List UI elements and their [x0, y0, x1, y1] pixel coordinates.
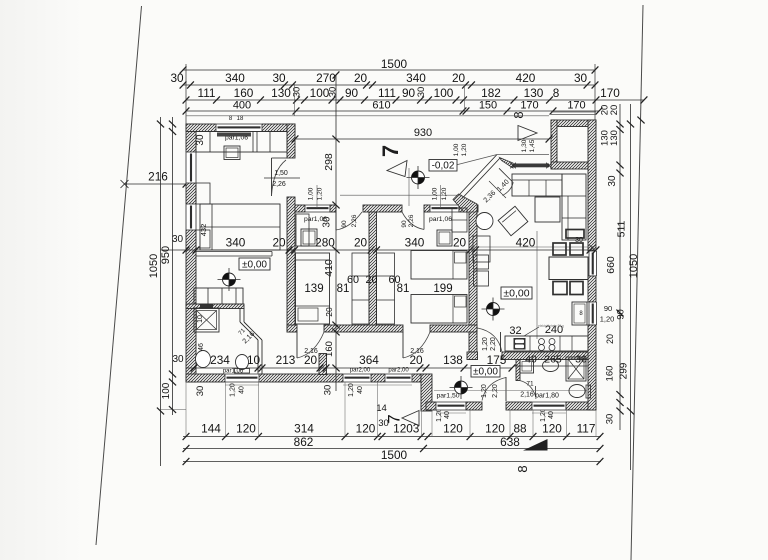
svg-text:298: 298 [323, 153, 335, 171]
washing machine porch [520, 360, 534, 374]
roof edge right wing [551, 112, 596, 115]
svg-text:120: 120 [443, 422, 463, 436]
svg-text:139: 139 [304, 283, 323, 295]
wall bedroom1 south partition [196, 252, 272, 257]
window left wall lower [185, 204, 196, 230]
svg-text:638: 638 [500, 435, 520, 449]
toilet bath2 [569, 385, 591, 399]
window top bedroom1 [216, 123, 262, 132]
svg-text:160: 160 [605, 366, 616, 382]
svg-text:160: 160 [234, 86, 254, 100]
wall storage west [551, 120, 557, 169]
svg-text:20: 20 [453, 236, 467, 250]
svg-text:2,26: 2,26 [272, 181, 286, 188]
svg-text:950: 950 [160, 246, 172, 264]
svg-text:±0,00: ±0,00 [473, 366, 498, 377]
svg-text:1,00: 1,00 [453, 143, 460, 156]
svg-text:2,20: 2,20 [492, 384, 499, 398]
svg-text:1,20: 1,20 [317, 187, 324, 200]
bottom left small dims 30 120 40 [195, 383, 555, 429]
porch floor line [434, 390, 587, 392]
svg-text:120: 120 [485, 422, 505, 436]
svg-text:511: 511 [616, 220, 628, 237]
svg-text:610: 610 [372, 100, 390, 112]
svg-text:14: 14 [376, 403, 387, 414]
svg-text:170: 170 [567, 100, 585, 112]
level label -0,02 terrace [429, 160, 457, 172]
labels 81 81 [337, 283, 410, 295]
svg-text:8: 8 [511, 111, 526, 118]
window bathroom1 south [225, 373, 259, 382]
left dimension line 1050 [148, 117, 164, 466]
svg-text:7: 7 [378, 145, 403, 157]
svg-text:20: 20 [600, 105, 611, 116]
bed bedroom3 lower [411, 295, 467, 324]
kitchen labels [509, 324, 564, 337]
terrace door dim lines [317, 185, 462, 208]
door bedroom2 corridor [297, 332, 324, 358]
svg-text:170: 170 [600, 86, 620, 100]
eaves line top [186, 115, 549, 117]
window corridor south 1 [343, 373, 371, 382]
wall bedrooms north seg4 [459, 205, 478, 212]
svg-text:216: 216 [148, 170, 168, 184]
terrace diagonal window [459, 155, 513, 205]
property boundary line right [631, 5, 643, 560]
benchmark hall [218, 268, 241, 291]
kitchen zone line [536, 231, 538, 339]
entrance arrow [518, 126, 537, 153]
window right wall upper [588, 251, 597, 276]
svg-text:30: 30 [323, 385, 334, 396]
svg-text:20: 20 [452, 71, 466, 85]
window bath2 south [532, 401, 566, 410]
svg-text:340: 340 [406, 71, 426, 85]
wardrobe bedroom1 [196, 132, 287, 153]
window label par1,06 bedroom1 [225, 135, 248, 142]
svg-text:120: 120 [356, 422, 376, 436]
window porch south [436, 401, 466, 410]
svg-text:30: 30 [575, 237, 583, 244]
wall bedrooms north seg3 [363, 205, 402, 212]
window left wall upper [185, 152, 196, 183]
top dimension row 30/340/30/270/20/340/20/420/30 [170, 71, 598, 89]
wall bottom right seg1 [426, 402, 436, 410]
labels 60 20 60 [347, 274, 401, 286]
chain connector verticals [161, 82, 465, 410]
vertical dim line 298/410/160 [323, 71, 340, 391]
svg-text:420: 420 [516, 71, 536, 85]
svg-text:400: 400 [233, 100, 251, 112]
svg-text:420: 420 [516, 236, 536, 250]
svg-text:20: 20 [409, 353, 423, 367]
svg-text:18: 18 [237, 116, 244, 122]
terrace diagonal door [499, 168, 513, 195]
dim 30 bedroom1 wall [195, 134, 206, 146]
wall bedroom1 east lower [287, 197, 295, 250]
dim 1,00 1,20 terrace left [308, 187, 324, 200]
closet bedroom2 east [352, 253, 369, 324]
wardrobe bedroom3 [452, 208, 467, 232]
wall bathroom1 diagonal [238, 322, 262, 345]
window label par1,06 bath1 [223, 369, 244, 375]
svg-text:1,45: 1,45 [529, 139, 536, 152]
svg-text:2,26: 2,26 [408, 214, 415, 227]
bottom dimension row 144/120/314/120/120/120/120/88/120/117 [183, 422, 604, 441]
bottom slope marker 7 with triangle [385, 411, 420, 426]
dining chairs [553, 230, 584, 295]
svg-text:8: 8 [553, 86, 560, 100]
svg-text:2,16: 2,16 [520, 392, 534, 399]
svg-text:364: 364 [359, 353, 379, 367]
wall kitchen-bath divider seg2 [502, 352, 596, 360]
svg-text:1500: 1500 [381, 448, 408, 462]
wall corridor stub [319, 354, 327, 375]
door bedroom3 terrace [401, 212, 424, 230]
svg-text:20: 20 [354, 71, 368, 85]
svg-text:160: 160 [324, 341, 335, 357]
round table living [476, 213, 493, 230]
svg-text:20: 20 [354, 236, 368, 250]
svg-text:30: 30 [172, 354, 184, 365]
svg-text:120: 120 [542, 422, 562, 436]
svg-text:20: 20 [272, 236, 286, 250]
svg-text:90: 90 [345, 86, 359, 100]
svg-text:10: 10 [197, 315, 204, 323]
svg-text:elektr.tüzhely 90 g: elektr.tüzhely 90 g [538, 324, 564, 328]
svg-text:150: 150 [479, 100, 497, 112]
svg-text:30: 30 [292, 87, 303, 98]
wall bottom right seg3 [506, 402, 532, 410]
wall bedrooms north seg1 [295, 205, 305, 212]
nightstand bedroom1 [224, 146, 240, 160]
svg-text:1,00: 1,00 [432, 187, 439, 200]
terrace lines [292, 127, 553, 167]
svg-text:81: 81 [337, 283, 350, 295]
wall right exterior lower [588, 325, 596, 410]
closet hall [194, 288, 243, 304]
svg-text:90: 90 [401, 220, 408, 228]
svg-text:81: 81 [397, 283, 410, 295]
svg-text:340: 340 [225, 71, 245, 85]
svg-text:117: 117 [577, 422, 596, 436]
svg-text:1050: 1050 [148, 254, 160, 278]
top dimension row 111/160/130/30/100/30/90/111/90/30/100/28/182/130/8 [183, 86, 648, 104]
left dimension line 950/100 [160, 117, 184, 415]
svg-text:32: 32 [509, 325, 521, 337]
sofa right [562, 174, 586, 240]
svg-text:90: 90 [616, 309, 627, 320]
wall storage south [551, 162, 596, 169]
bottom dimension row 1500 [183, 448, 604, 465]
svg-text:930: 930 [414, 127, 432, 139]
top dimension row 400/610/10/150/170/170 [183, 100, 603, 115]
right dimension chain 20/130/30/511/660/299 [605, 104, 630, 430]
wall porch-bath2 vertical [516, 360, 520, 381]
door entry [481, 377, 506, 401]
svg-text:30: 30 [322, 216, 333, 228]
window label par1,06 bedroom3 [429, 216, 452, 223]
svg-text:1,30: 1,30 [521, 139, 528, 152]
door bedroom3 corridor [403, 332, 430, 358]
dining table [549, 257, 588, 280]
svg-text:30: 30 [195, 386, 206, 397]
fridge [572, 302, 587, 325]
svg-text:90: 90 [604, 304, 612, 313]
level label +-0,00 kitchen [501, 287, 532, 299]
tiny dims under 400 [229, 116, 244, 122]
svg-text:par2,00: par2,00 [350, 368, 371, 374]
right dimension line 1050 [600, 104, 641, 470]
svg-text:46: 46 [198, 343, 205, 351]
svg-text:40: 40 [444, 411, 451, 419]
wall bathroom1 east lower [258, 340, 262, 374]
window label par1,06 bedroom2 [304, 216, 327, 223]
svg-text:30: 30 [605, 414, 616, 425]
sill lines bottom left [225, 384, 412, 386]
top dimension row 1500 [180, 57, 599, 124]
svg-text:175: 175 [487, 353, 507, 367]
svg-text:213: 213 [276, 353, 296, 367]
wall right wing top [551, 120, 596, 127]
svg-text:314: 314 [294, 422, 314, 436]
svg-text:±0,00: ±0,00 [503, 287, 529, 299]
corridor dimension chain 234/10/213/20/364/20/138/175 [186, 353, 515, 372]
dim 30 bedroom2 window [322, 216, 333, 228]
wall bottom right seg4 [566, 402, 596, 410]
svg-text:8: 8 [515, 465, 530, 472]
svg-text:1,20: 1,20 [481, 384, 488, 398]
sofa top [512, 174, 562, 196]
svg-text:182: 182 [481, 86, 501, 100]
window label par2,00 corridor1 [350, 368, 371, 374]
svg-text:299: 299 [619, 362, 630, 379]
svg-text:120: 120 [236, 422, 256, 436]
desk bedroom2 [296, 214, 309, 246]
sill lines bottom right [436, 412, 566, 414]
svg-text:71: 71 [526, 381, 534, 388]
wall bedrooms south seg1 [287, 325, 297, 332]
wall bedrooms south seg3 [430, 325, 477, 332]
setback dim 216 [121, 170, 190, 189]
sink bath1 [196, 343, 211, 367]
svg-text:144: 144 [201, 422, 221, 436]
svg-text:130: 130 [524, 86, 544, 100]
benchmark porch [450, 376, 473, 399]
window corridor south 2 [385, 373, 412, 382]
benchmark terrace [407, 166, 430, 206]
svg-text:20: 20 [365, 274, 377, 286]
wall bathroom1 north [186, 304, 244, 309]
svg-text:130: 130 [271, 86, 291, 100]
svg-text:30: 30 [172, 234, 184, 245]
svg-text:40: 40 [525, 354, 537, 366]
svg-text:111: 111 [378, 86, 396, 100]
svg-text:30: 30 [416, 87, 427, 98]
dim 1,00 1,20 terrace right [453, 143, 468, 156]
label 199 bedroom3 [433, 283, 452, 295]
level label +-0,00 porch [471, 366, 500, 378]
wall bedrooms north seg2 [330, 205, 336, 212]
bed bedroom2 [296, 253, 330, 324]
shower bath1 [194, 308, 219, 332]
closet bedroom3 west [377, 253, 395, 324]
svg-text:36: 36 [575, 354, 587, 366]
svg-text:660: 660 [605, 256, 617, 274]
bath2 dimension chain 40/265/36 [514, 354, 588, 367]
bed bedroom3 upper [411, 251, 467, 280]
svg-text:par1,80: par1,80 [535, 393, 559, 400]
benchmark kitchen [482, 298, 505, 321]
label 139 bedroom2 [304, 283, 323, 295]
door bedroom1 [264, 158, 300, 196]
armchair living [498, 206, 528, 235]
wall bottom left section [186, 374, 421, 382]
wall bedroom3 east [469, 205, 477, 360]
svg-text:1,00: 1,00 [308, 187, 315, 200]
svg-text:1,20: 1,20 [482, 337, 489, 351]
interior dimension chain 340/20/280/20/340/20/420 [161, 236, 600, 254]
boundary tick right [637, 117, 644, 124]
svg-text:130: 130 [600, 130, 611, 146]
svg-text:40: 40 [239, 386, 246, 394]
nightstand bedroom2 [301, 229, 317, 246]
svg-text:30: 30 [195, 134, 206, 146]
svg-text:88: 88 [513, 422, 527, 436]
svg-text:1,20: 1,20 [441, 187, 448, 200]
window jamb cross right wall [590, 245, 596, 251]
coffee table living [535, 197, 560, 222]
svg-text:20: 20 [304, 353, 318, 367]
svg-text:±0,00: ±0,00 [242, 259, 267, 270]
svg-text:90: 90 [341, 220, 348, 228]
svg-text:170: 170 [520, 100, 538, 112]
nightstand bedroom3 [437, 230, 452, 246]
wall bedrooms north seg3b [424, 205, 430, 212]
door porch-kitchen [478, 327, 503, 352]
bottom dimension row 862/638 [183, 435, 604, 452]
svg-text:20: 20 [605, 334, 615, 344]
door bedroom2 terrace [336, 212, 362, 230]
wall right exterior mid [588, 276, 596, 302]
svg-text:1,20: 1,20 [461, 143, 468, 156]
window bedroom2 north [305, 204, 330, 212]
svg-text:par1,06: par1,06 [429, 216, 452, 223]
svg-text:130: 130 [609, 130, 620, 146]
wall bedroom2-3 divider [369, 212, 377, 325]
sink bath2 [543, 360, 559, 372]
svg-text:90: 90 [402, 86, 416, 100]
floor line dining [470, 246, 590, 248]
svg-text:1050: 1050 [628, 254, 640, 278]
right small labels 90 120 8 [600, 304, 616, 424]
wall porch west [421, 374, 432, 411]
svg-text:340: 340 [405, 236, 425, 250]
svg-text:20: 20 [609, 105, 620, 116]
level label +-0,00 hall [239, 258, 270, 270]
wall left exterior [186, 124, 196, 382]
svg-text:199: 199 [433, 283, 452, 295]
svg-text:30: 30 [574, 71, 588, 85]
svg-text:280: 280 [315, 236, 335, 250]
svg-text:30: 30 [378, 418, 389, 429]
door bath2 [520, 381, 559, 400]
svg-text:par2,00: par2,00 [388, 368, 409, 374]
svg-text:-0,02: -0,02 [432, 160, 455, 171]
svg-text:1500: 1500 [381, 57, 408, 71]
property boundary line left [96, 6, 142, 545]
level symbol 8 bottom [515, 465, 530, 472]
wall bedroom2 west [287, 250, 295, 332]
svg-text:340: 340 [226, 236, 246, 250]
svg-text:234: 234 [210, 353, 230, 367]
wall bottom right seg2 [466, 402, 482, 410]
svg-text:138: 138 [443, 353, 463, 367]
wall kitchen-bath divider seg1 [467, 352, 478, 360]
svg-text:1,50: 1,50 [274, 170, 288, 177]
svg-text:111: 111 [198, 86, 216, 100]
wall top bedroom1 [186, 124, 295, 132]
wall bedroom1 east upper [287, 124, 295, 158]
extension lines to bottom dims [186, 382, 596, 436]
terrace diagonal pier [453, 194, 477, 212]
kitchen counter [505, 327, 588, 351]
window label par1,50 porch [436, 393, 459, 400]
svg-text:40: 40 [357, 386, 364, 394]
shower bath2 [566, 357, 586, 381]
svg-text:30: 30 [170, 71, 184, 85]
svg-text:410: 410 [323, 259, 335, 277]
kitchen tall cabinets [473, 236, 490, 286]
bed bedroom1 [199, 204, 280, 250]
window bedroom3 north [430, 204, 459, 212]
svg-text:862: 862 [294, 435, 314, 449]
svg-text:2,26: 2,26 [351, 214, 358, 227]
svg-text:20: 20 [324, 307, 334, 317]
svg-text:30: 30 [328, 87, 339, 98]
wall bedrooms south seg2 [324, 325, 403, 332]
svg-text:par1,50: par1,50 [436, 393, 459, 400]
wall bathroom1 east upper [240, 308, 244, 322]
svg-text:100: 100 [161, 382, 172, 399]
svg-text:2,20: 2,20 [490, 337, 497, 351]
terrace step symbol 7 [378, 145, 407, 177]
window label par2,00 corridor2 [388, 368, 409, 374]
svg-text:40: 40 [548, 411, 555, 419]
terrace edge threshold [510, 163, 552, 169]
svg-text:10: 10 [247, 353, 261, 367]
level symbol 8 top [511, 111, 526, 118]
svg-text:30: 30 [272, 71, 286, 85]
toilet bath1 [235, 355, 250, 374]
svg-text:1,20: 1,20 [600, 315, 615, 324]
wall right exterior upper [588, 120, 596, 251]
svg-text:100: 100 [434, 86, 454, 100]
window right wall lower [588, 302, 597, 325]
dresser bedroom1 left [196, 183, 210, 248]
svg-text:30: 30 [607, 175, 618, 187]
